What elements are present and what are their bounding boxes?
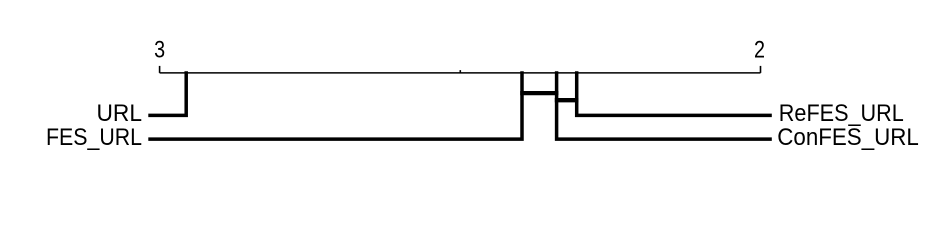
- svg-text:ConFES_URL: ConFES_URL: [777, 124, 919, 151]
- svg-text:FES_URL: FES_URL: [46, 124, 142, 151]
- svg-text:3: 3: [154, 37, 165, 64]
- svg-text:2: 2: [754, 37, 765, 64]
